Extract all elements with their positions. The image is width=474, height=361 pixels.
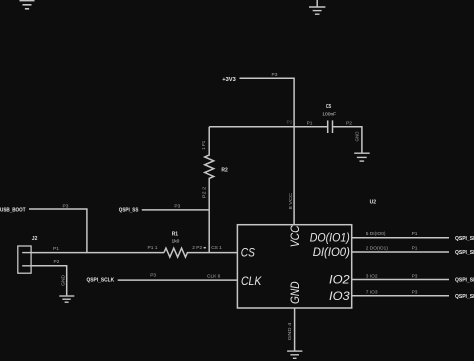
ground (top-left, clipped) — [20, 1, 35, 9]
svg-text:P1: P1 — [307, 120, 313, 126]
svg-text:P1 1: P1 1 — [148, 245, 158, 251]
svg-text:CLK: CLK — [241, 274, 262, 288]
svg-text:P3: P3 — [174, 204, 180, 210]
svg-text:P1: P1 — [412, 245, 418, 251]
svg-text:J2: J2 — [32, 236, 38, 242]
svg-text:P3: P3 — [150, 273, 156, 279]
wire QSPI_SS to R2 net — [142, 209, 209, 211]
svg-text:QSPI_SD0: QSPI_SD0 — [455, 236, 474, 242]
svg-text:QSPI_SS: QSPI_SS — [119, 207, 139, 213]
ground (U2 GND) — [287, 351, 302, 358]
svg-text:R1: R1 — [172, 232, 179, 238]
svg-text:GND: GND — [61, 274, 67, 285]
svg-text:QSPI_SD2: QSPI_SD2 — [455, 278, 474, 284]
wire J2 pin2 to ground — [31, 266, 67, 296]
svg-text:IO2: IO2 — [329, 273, 350, 287]
svg-text:U2: U2 — [370, 200, 377, 206]
wire DO(IO1) to QSPI_SD0 — [352, 237, 449, 239]
svg-text:5 DI(IO0): 5 DI(IO0) — [366, 231, 386, 237]
wire C5 to ground — [333, 127, 362, 153]
svg-text:2 P2: 2 P2 — [192, 245, 202, 251]
svg-text:QSPI_SD1: QSPI_SD1 — [455, 250, 474, 256]
ground (C5) — [354, 153, 370, 161]
svg-text:VCC: VCC — [288, 225, 302, 247]
svg-text:P2: P2 — [287, 120, 293, 126]
svg-text:IO3: IO3 — [329, 289, 350, 303]
svg-text:USB_BOOT: USB_BOOT — [0, 207, 26, 213]
wire QSPI_SCLK to CLK pin — [118, 279, 238, 281]
junction tick — [204, 247, 206, 249]
wire J2 pin1 to CS line — [31, 252, 164, 254]
resistor R2 (vertical) — [205, 127, 214, 253]
capacitor C5 — [328, 120, 333, 133]
svg-text:QSPI_SCLK: QSPI_SCLK — [87, 277, 115, 283]
svg-text:P3: P3 — [272, 72, 278, 78]
svg-text:P2 2: P2 2 — [201, 186, 207, 198]
svg-text:P3: P3 — [63, 203, 69, 209]
svg-text:R2: R2 — [221, 167, 228, 173]
svg-text:8 VCC: 8 VCC — [288, 192, 294, 209]
ground (J2 pin2) — [59, 296, 74, 302]
svg-text:100nF: 100nF — [322, 111, 336, 117]
flash IC U2 body — [237, 225, 351, 308]
svg-text:CLK 6: CLK 6 — [207, 274, 221, 280]
wire +3V3 to VCC rail — [240, 78, 295, 225]
svg-text:P3: P3 — [412, 273, 418, 279]
svg-text:P1: P1 — [53, 246, 59, 252]
svg-text:3 IO2: 3 IO2 — [366, 273, 378, 279]
svg-text:QSPI_SD3: QSPI_SD3 — [455, 294, 474, 300]
wire U2 GND pin to ground — [294, 308, 296, 351]
svg-text:CS 1: CS 1 — [211, 245, 222, 251]
wire 3V3 rail to C5 and R2 — [209, 126, 327, 128]
svg-text:+3V3: +3V3 — [222, 77, 236, 83]
svg-text:P3: P3 — [412, 289, 418, 295]
connector J2 — [18, 246, 31, 273]
svg-text:DI(IO0): DI(IO0) — [313, 245, 350, 259]
resistor R1 (horizontal) — [164, 248, 237, 257]
svg-text:2 DO(IO1): 2 DO(IO1) — [366, 245, 389, 251]
svg-text:GND 4: GND 4 — [287, 322, 293, 340]
svg-text:DO(IO1): DO(IO1) — [310, 231, 350, 245]
svg-text:P2: P2 — [54, 259, 60, 265]
wire IO2 to QSPI_SD2 — [352, 279, 449, 281]
wire DI(IO0) to QSPI_SD1 — [352, 251, 449, 253]
svg-text:1 P1: 1 P1 — [201, 141, 207, 150]
svg-text:P1: P1 — [412, 231, 418, 237]
wire IO3 to QSPI_SD3 — [352, 295, 449, 297]
svg-text:GND: GND — [288, 281, 302, 304]
svg-text:C5: C5 — [326, 104, 332, 110]
wire USB_BOOT down to CS net — [29, 209, 87, 253]
ground (top-middle) — [309, 0, 325, 14]
svg-text:GND: GND — [355, 131, 361, 141]
svg-text:CS: CS — [241, 246, 255, 260]
svg-text:1k0: 1k0 — [172, 238, 180, 244]
svg-text:P2: P2 — [346, 120, 352, 126]
svg-text:7 IO3: 7 IO3 — [366, 289, 378, 295]
